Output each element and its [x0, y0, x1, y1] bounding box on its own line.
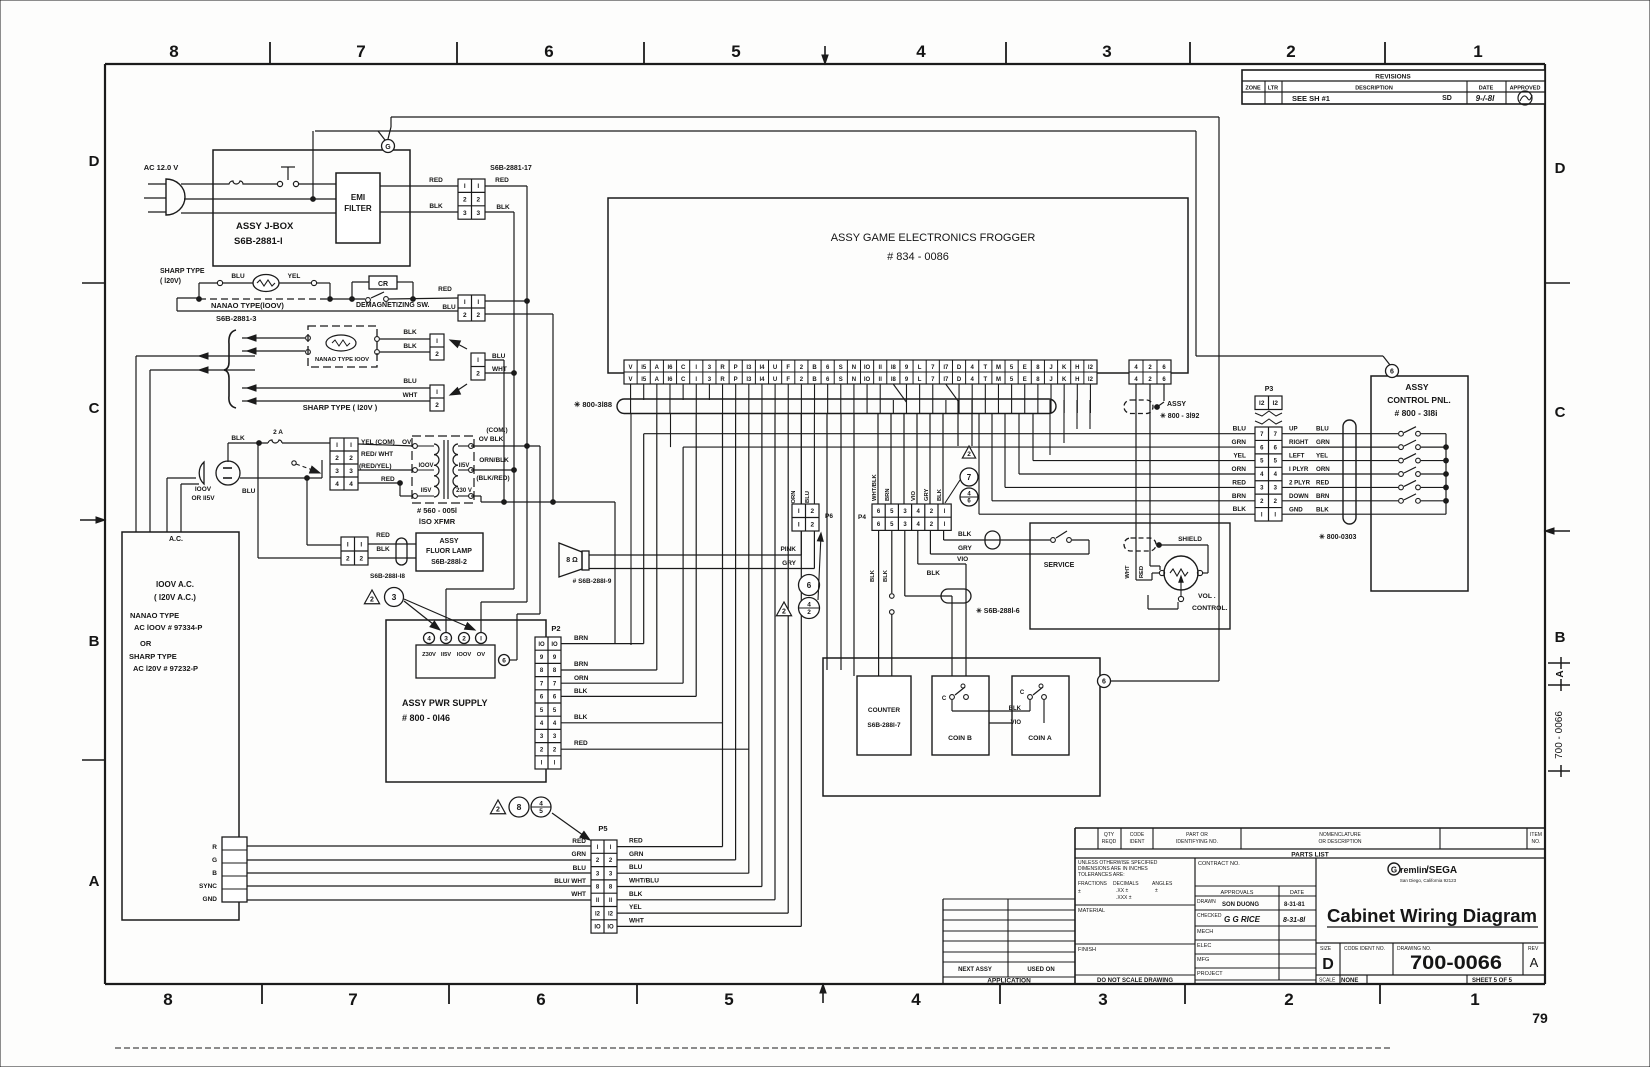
revisions table — [1242, 70, 1545, 105]
svg-text:SHIELD: SHIELD — [1178, 536, 1202, 543]
centerline arrow top — [822, 46, 828, 64]
bundle drop wires continuing below — [631, 400, 1091, 413]
svg-text:remlin: remlin — [1400, 865, 1427, 875]
size / code / drawing number row — [1316, 943, 1545, 984]
svg-text:l3: l3 — [746, 377, 752, 383]
svg-text:PINK: PINK — [780, 546, 796, 553]
gremlin/sega logo — [1388, 863, 1457, 883]
note triangle 2 circle 8 circle 4/5 — [490, 797, 592, 843]
wire GRY service return — [930, 540, 1089, 554]
svg-text:DESCRIPTION: DESCRIPTION — [1355, 86, 1393, 92]
wire BLK to service — [944, 531, 1050, 540]
wire RED to riser — [485, 177, 527, 186]
svg-text:# 800 - 3l8i: # 800 - 3l8i — [1394, 408, 1437, 418]
svg-text:2: 2 — [807, 609, 811, 616]
svg-text:l6: l6 — [667, 377, 673, 383]
svg-text:8: 8 — [169, 42, 178, 61]
short drops D 4 — [958, 400, 972, 446]
svg-text:BLK: BLK — [1233, 506, 1247, 513]
svg-text:2: 2 — [1284, 990, 1293, 1009]
svg-text:2: 2 — [435, 351, 439, 358]
svg-text:N: N — [852, 365, 856, 371]
svg-text:SHEET 5 OF 5: SHEET 5 OF 5 — [1472, 978, 1513, 984]
svg-text:P2: P2 — [551, 624, 560, 633]
svg-text:ll: ll — [596, 898, 600, 904]
svg-text:SIZE: SIZE — [1320, 946, 1332, 952]
svg-text:79: 79 — [1532, 1010, 1548, 1026]
svg-text:4: 4 — [427, 635, 431, 642]
svg-text:2: 2 — [1286, 42, 1295, 61]
speaker 8 ohm — [559, 543, 612, 585]
note triangle2 circle7 circle4/6 — [945, 446, 978, 506]
fluor lamp connector — [341, 537, 368, 565]
svg-text:USED ON: USED ON — [1027, 967, 1054, 973]
svg-text:D: D — [957, 365, 962, 371]
svg-text:ASSY: ASSY — [1167, 401, 1186, 408]
svg-text:WHT: WHT — [492, 366, 507, 373]
svg-text:GRN: GRN — [572, 851, 587, 858]
svg-text:✳ 800-3l88: ✳ 800-3l88 — [574, 400, 612, 409]
fluor lamp labels — [376, 532, 390, 553]
svg-text:l5: l5 — [641, 377, 647, 383]
svg-text:ASSY GAME ELECTRONICS FROGG: ASSY GAME ELECTRONICS FROGGER — [831, 232, 1036, 244]
svg-text:(BLK/RED): (BLK/RED) — [476, 475, 509, 482]
svg-text:ll5V: ll5V — [459, 463, 470, 469]
note triangle 2 and circle 3 — [364, 588, 476, 634]
svg-text:9-/-8l: 9-/-8l — [1476, 94, 1495, 103]
svg-text:ASSY J-BOX: ASSY J-BOX — [236, 221, 294, 232]
next assy / used on table — [943, 899, 1075, 985]
svg-text:YEL: YEL — [1316, 453, 1328, 460]
nanao type 100V thermistor box — [306, 326, 380, 367]
wire degauss pin2 riser x553 — [485, 314, 553, 502]
svg-text:l: l — [350, 442, 352, 449]
svg-text:BRN: BRN — [574, 661, 588, 668]
svg-text:RED: RED — [438, 286, 452, 293]
svg-text:A.C.: A.C. — [169, 536, 183, 543]
drops to coin door — [827, 413, 854, 676]
row letters right — [1555, 160, 1566, 646]
svg-text:l PLYR: l PLYR — [1289, 466, 1309, 473]
svg-text:l2: l2 — [1088, 377, 1094, 383]
svg-text:A: A — [655, 365, 660, 371]
svg-text:BLK: BLK — [937, 488, 943, 501]
svg-text:8: 8 — [163, 990, 172, 1009]
svg-text:YEL: YEL — [1233, 453, 1246, 460]
svg-text:MECH: MECH — [1197, 929, 1213, 935]
svg-text:✳ 800 - 3l92: ✳ 800 - 3l92 — [1160, 412, 1199, 420]
ground bus to control panel — [1196, 131, 1390, 365]
svg-text:BLK: BLK — [403, 329, 417, 336]
svg-text:S6B-2881-l: S6B-2881-l — [234, 236, 283, 247]
svg-text:NANAO TYPE: NANAO TYPE — [130, 611, 179, 620]
tolerance block — [1075, 860, 1195, 984]
coin wire grommet — [941, 589, 971, 603]
P2 connector — [535, 624, 561, 769]
svg-text:K: K — [1062, 365, 1067, 371]
coin door ground node — [1098, 675, 1220, 688]
degauss loop wires — [197, 280, 333, 301]
svg-text:l7: l7 — [943, 365, 949, 371]
svg-text:K: K — [1062, 377, 1067, 383]
feed connector BLU WHT — [448, 337, 506, 398]
svg-text:SERVICE: SERVICE — [1044, 562, 1075, 569]
svg-text:COIN A: COIN A — [1028, 735, 1052, 742]
svg-text:WHT/BLK: WHT/BLK — [872, 473, 878, 501]
P6 connector — [791, 413, 833, 531]
svg-text:(COM.): (COM.) — [486, 427, 507, 434]
svg-text:l: l — [436, 389, 438, 396]
svg-text:CHECKED: CHECKED — [1197, 913, 1222, 919]
svg-text:( l20V A.C.): ( l20V A.C.) — [154, 593, 196, 602]
wire EMI RED output — [380, 177, 458, 186]
speaker wire PINK — [589, 531, 801, 555]
svg-text:7: 7 — [356, 42, 365, 61]
svg-text:2: 2 — [496, 807, 500, 814]
svg-text:4: 4 — [911, 990, 921, 1009]
wire xfmr 115V sec — [471, 468, 516, 473]
fluor wires left feed — [258, 443, 341, 558]
svg-text:6: 6 — [544, 42, 553, 61]
interlock switch S1 — [277, 167, 298, 187]
svg-text:5: 5 — [724, 990, 733, 1009]
svg-text:DEMAGNETIZING SW.: DEMAGNETIZING SW. — [356, 302, 430, 309]
svg-text:6: 6 — [1390, 369, 1394, 376]
svg-text:BLK: BLK — [574, 688, 588, 695]
ground bus wire A top — [391, 117, 1219, 127]
svg-text:DATE: DATE — [1479, 86, 1494, 92]
svg-text:R: R — [212, 844, 217, 851]
svg-text:RIGHT: RIGHT — [1289, 439, 1308, 446]
svg-text:PARTS LIST: PARTS LIST — [1291, 852, 1328, 859]
svg-text:l4: l4 — [759, 377, 765, 383]
svg-text:C: C — [681, 377, 686, 383]
svg-text:L: L — [918, 377, 922, 383]
svg-text:BLK: BLK — [1316, 506, 1329, 513]
svg-text:V: V — [629, 365, 633, 371]
svg-text:H: H — [1075, 377, 1079, 383]
svg-text:NANAO TYPE(lOOV): NANAO TYPE(lOOV) — [211, 301, 284, 310]
svg-text:3: 3 — [335, 468, 339, 475]
svg-text:l2: l2 — [608, 911, 614, 917]
svg-text:5: 5 — [731, 42, 740, 61]
control panel ground node — [1386, 365, 1399, 378]
wires 4 2 6 connector down — [1136, 384, 1164, 546]
svg-text:WHT: WHT — [403, 392, 418, 399]
svg-text:/SEGA: /SEGA — [1426, 865, 1457, 876]
svg-text:T: T — [983, 377, 987, 383]
svg-text:RED: RED — [574, 740, 588, 747]
svg-text:l: l — [464, 299, 466, 306]
svg-text:8-31-8l: 8-31-8l — [1283, 917, 1306, 924]
svg-text:SYNC: SYNC — [199, 883, 217, 890]
plug BLU to selector — [240, 460, 322, 478]
svg-text:San Diego, California 92123: San Diego, California 92123 — [1400, 878, 1457, 883]
row tick right — [1545, 282, 1570, 284]
svg-text:ITEM: ITEM — [1530, 832, 1542, 838]
plug P2ac — [191, 461, 255, 502]
svg-text:lO: lO — [538, 642, 545, 648]
assy game electronics frogger box — [608, 198, 1188, 373]
svg-text:RED: RED — [1316, 479, 1330, 486]
connector monitor nanao 1 2 — [430, 334, 444, 360]
aux edge connector 4 2 6 — [1129, 360, 1171, 384]
row letters left — [89, 153, 100, 890]
svg-text:lSO XFMR: lSO XFMR — [419, 517, 456, 526]
sheet border frame — [105, 64, 1545, 984]
svg-text:OR ll5V: OR ll5V — [191, 495, 215, 502]
svg-text:F: F — [786, 377, 790, 383]
svg-text:S6B-288l-2: S6B-288l-2 — [431, 559, 467, 566]
wire switch to EMI — [299, 183, 336, 185]
svg-text:OR: OR — [140, 639, 152, 648]
assy control panel box 800-3181 — [1371, 376, 1468, 591]
thermistor RT1 — [231, 273, 300, 292]
svg-text:l: l — [477, 357, 479, 364]
svg-text:BLU: BLU — [629, 864, 643, 871]
svg-text:LEFT: LEFT — [1289, 453, 1305, 460]
svg-text:LTR: LTR — [1268, 86, 1278, 92]
2A fuse F2 — [228, 429, 330, 462]
P5 connector — [591, 824, 617, 933]
svg-text:ANGLES: ANGLES — [1152, 881, 1173, 887]
svg-text:lO: lO — [864, 365, 871, 371]
svg-text:DOWN: DOWN — [1289, 493, 1309, 500]
svg-text:l: l — [436, 338, 438, 345]
svg-text:NEXT ASSY: NEXT ASSY — [958, 967, 992, 973]
svg-text:CONTRACT NO.: CONTRACT NO. — [1198, 861, 1240, 867]
svg-text:2: 2 — [370, 597, 374, 604]
svg-text:SHARP TYPE: SHARP TYPE — [160, 268, 205, 275]
svg-text:6: 6 — [502, 657, 506, 664]
contract / approvals block — [1195, 861, 1316, 980]
svg-text:PROJECT: PROJECT — [1197, 971, 1223, 977]
assy fluor lamp box S6B-2881-2 — [370, 533, 483, 580]
svg-text:2: 2 — [346, 555, 350, 562]
svg-text:2: 2 — [349, 455, 353, 462]
svg-text:J: J — [1049, 377, 1052, 383]
svg-text:BRN: BRN — [1316, 493, 1330, 500]
svg-text:RED: RED — [629, 838, 643, 845]
svg-text:S: S — [839, 365, 843, 371]
svg-text:YEL: YEL — [288, 273, 301, 280]
wire fuse to switch — [249, 183, 277, 185]
svg-text:2: 2 — [435, 402, 439, 409]
ground riser from EMI junction — [312, 131, 314, 199]
svg-text:1: 1 — [1473, 42, 1482, 61]
pwr supply ground node — [499, 655, 510, 666]
svg-text:U: U — [773, 377, 777, 383]
coin switch wiring — [952, 700, 1044, 723]
svg-text:BLK: BLK — [496, 204, 510, 211]
zone numbers bottom — [163, 990, 1479, 1009]
svg-text:BRN: BRN — [885, 488, 891, 501]
svg-text:BLK: BLK — [629, 891, 643, 898]
svg-text:BLU: BLU — [1316, 426, 1329, 433]
svg-text:TOLERANCES ARE:: TOLERANCES ARE: — [1078, 872, 1125, 878]
svg-text:OV: OV — [402, 439, 412, 446]
wire feed WHT to riser x514 — [485, 371, 516, 376]
fuse F1 — [223, 181, 249, 184]
svg-text:J: J — [1049, 365, 1052, 371]
svg-text:A: A — [1555, 670, 1566, 677]
svg-text:V: V — [629, 377, 633, 383]
wires WHT RED into vol control — [1125, 545, 1145, 580]
svg-text:2: 2 — [782, 609, 786, 616]
ground ref and notes near P6 — [776, 533, 824, 619]
svg-text:PART OR: PART OR — [1186, 832, 1208, 838]
P4 connector — [858, 504, 951, 530]
svg-text:4: 4 — [916, 42, 926, 61]
svg-text:C: C — [681, 365, 686, 371]
svg-text:1: 1 — [1470, 990, 1479, 1009]
sharp type 120V label — [160, 268, 205, 285]
svg-text:WHT: WHT — [1125, 565, 1131, 579]
svg-text:8-31-81: 8-31-81 — [1284, 902, 1305, 908]
P3 connector — [1255, 386, 1282, 521]
strip stub wires — [631, 384, 1091, 402]
svg-text:2: 2 — [335, 455, 339, 462]
svg-text:l6: l6 — [667, 365, 673, 371]
svg-text:ll: ll — [879, 365, 883, 371]
svg-text:lOOV: lOOV — [418, 463, 433, 469]
svg-text:OV: OV — [477, 652, 486, 658]
wires conn to xfmr — [358, 444, 415, 496]
svg-text:BLK: BLK — [403, 343, 417, 350]
svg-text:ll: ll — [609, 898, 613, 904]
svg-text:ASSY: ASSY — [439, 538, 458, 545]
svg-text:2: 2 — [359, 555, 363, 562]
wires nanao box to brace — [242, 335, 305, 354]
svg-text:lOOV: lOOV — [195, 486, 212, 493]
cable bundle 800-3188 — [574, 399, 1056, 414]
svg-text:3: 3 — [476, 210, 480, 217]
svg-text:lOOV A.C.: lOOV A.C. — [156, 580, 194, 589]
svg-text:2: 2 — [463, 196, 467, 203]
wire VIO to coin A — [918, 556, 1044, 723]
svg-text:3: 3 — [1102, 42, 1111, 61]
svg-text:RED: RED — [376, 532, 390, 539]
svg-text:✳ 800-0303: ✳ 800-0303 — [1319, 533, 1356, 541]
svg-text:2: 2 — [463, 312, 467, 319]
svg-text:OR DESCRIPTION: OR DESCRIPTION — [1318, 839, 1361, 845]
row ticks left — [82, 283, 105, 760]
video wires to P5 — [247, 846, 591, 900]
svg-text:L: L — [918, 365, 922, 371]
svg-text:AC lOOV # 97334-P: AC lOOV # 97334-P — [134, 623, 202, 632]
svg-text:C: C — [1020, 690, 1025, 696]
svg-text:4: 4 — [807, 602, 811, 609]
centerline arrow right — [1545, 528, 1570, 534]
svg-text:REQD: REQD — [1102, 839, 1117, 845]
svg-text:2: 2 — [476, 312, 480, 319]
svg-text:D: D — [1322, 956, 1334, 973]
svg-text:C: C — [1555, 404, 1566, 421]
svg-text:l: l — [480, 635, 482, 642]
svg-text:FINISH: FINISH — [1078, 947, 1096, 953]
svg-text:l: l — [798, 522, 800, 529]
svg-text:R: R — [720, 377, 725, 383]
svg-text:GRY: GRY — [958, 545, 973, 552]
svg-text:2: 2 — [462, 635, 466, 642]
svg-text:ll5V: ll5V — [441, 652, 451, 658]
centerline arrow bottom — [820, 984, 826, 1003]
AC feed arrows to monitor — [136, 353, 255, 532]
connector S6B-2881-17 — [458, 165, 532, 219]
svg-text:Cabinet Wiring Diagram: Cabinet Wiring Diagram — [1327, 906, 1537, 926]
control panel switches — [1282, 427, 1448, 515]
P3 right labels — [1289, 426, 1330, 514]
svg-text:AC 12.0 V: AC 12.0 V — [144, 163, 179, 172]
svg-text:BLU: BLU — [231, 273, 245, 280]
svg-text:l: l — [347, 541, 349, 548]
svg-text:C: C — [89, 400, 100, 417]
svg-text:B: B — [89, 633, 100, 650]
svg-text:BLU: BLU — [805, 491, 811, 503]
svg-text:l3: l3 — [746, 365, 752, 371]
svg-text:l: l — [477, 183, 479, 190]
svg-text:A: A — [1530, 955, 1539, 970]
svg-text:B: B — [812, 377, 817, 383]
svg-text:VIO: VIO — [1011, 720, 1022, 726]
svg-text:l: l — [336, 442, 338, 449]
svg-text:.XXX ±: .XXX ± — [1116, 895, 1132, 901]
svg-text:FRACTIONS: FRACTIONS — [1078, 881, 1108, 887]
svg-text:M: M — [996, 365, 1001, 371]
ground riser x540 — [509, 446, 540, 660]
svg-text:ASSY PWR SUPPLY: ASSY PWR SUPPLY — [402, 698, 488, 708]
svg-text:ll5V: ll5V — [421, 488, 432, 494]
service switch — [1044, 531, 1075, 569]
zone numbers top — [169, 42, 1482, 61]
svg-text:l: l — [464, 183, 466, 190]
pwr supply voltage taps — [416, 633, 495, 679]
svg-text:BLK: BLK — [927, 570, 941, 577]
wires nanao box to pins BLK BLK — [380, 329, 430, 352]
svg-text:REVISIONS: REVISIONS — [1375, 74, 1411, 81]
svg-text:T: T — [983, 365, 987, 371]
coin A box — [1009, 676, 1069, 755]
svg-text:l4: l4 — [759, 365, 765, 371]
svg-text:A: A — [655, 377, 660, 383]
svg-text:ASSY: ASSY — [1405, 382, 1428, 392]
parts list header cells — [1098, 828, 1542, 859]
svg-text:B: B — [212, 870, 217, 877]
fluor wires through loop — [368, 544, 416, 558]
svg-text:ZONE: ZONE — [1245, 86, 1261, 92]
svg-text:Z30V: Z30V — [422, 652, 436, 658]
svg-text:l2: l2 — [1259, 400, 1265, 407]
svg-text:N: N — [852, 377, 856, 383]
svg-text:F: F — [786, 365, 790, 371]
svg-text:MATERIAL: MATERIAL — [1078, 908, 1105, 914]
svg-text:CR: CR — [378, 281, 388, 288]
svg-text:P6: P6 — [825, 513, 833, 520]
wire L1 plug to fuse — [181, 183, 223, 185]
svg-text:P: P — [734, 365, 738, 371]
svg-text:RED: RED — [572, 838, 586, 845]
svg-text:l8: l8 — [891, 365, 897, 371]
svg-text:# 560 - 005l: # 560 - 005l — [417, 506, 457, 515]
svg-text:S: S — [839, 377, 843, 383]
svg-text:VIO: VIO — [911, 491, 917, 501]
P4 vertical wire labels BLK BLK — [870, 569, 889, 582]
P3 left wires from bundle — [644, 413, 1255, 514]
svg-text:ORN: ORN — [1232, 466, 1247, 473]
svg-text:SCALE: SCALE — [1319, 978, 1336, 984]
ground bus riser right — [1218, 117, 1220, 681]
svg-text:ORN: ORN — [791, 491, 797, 504]
